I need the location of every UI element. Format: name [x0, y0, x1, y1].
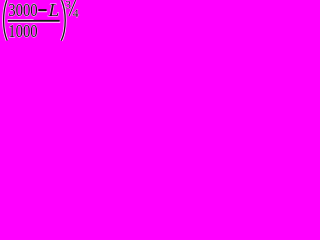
denominator 1000 [8, 20, 37, 41]
numerator 3000 [8, 0, 37, 20]
svg-text:L: L [47, 1, 59, 21]
fraction bar [8, 19, 61, 23]
variable L italic [47, 1, 59, 21]
svg-text:3: 3 [65, 0, 71, 11]
minus sign [38, 9, 47, 12]
big right parenthesis [61, 0, 65, 40]
svg-text:3000: 3000 [8, 0, 37, 20]
exponent denominator 4 [73, 8, 79, 20]
exponent slash [69, 0, 76, 16]
svg-text:4: 4 [73, 8, 79, 20]
big left parenthesis [4, 0, 8, 40]
svg-text:1000: 1000 [8, 20, 37, 41]
exponent numerator 3 [65, 0, 71, 11]
